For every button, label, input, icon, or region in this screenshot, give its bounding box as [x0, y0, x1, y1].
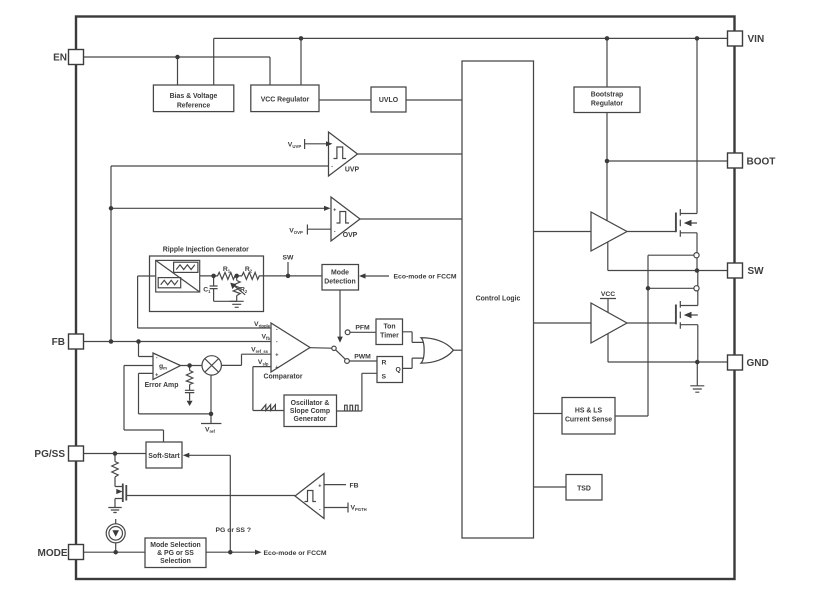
svg-text:+: +	[318, 484, 321, 490]
svg-text:-: -	[276, 339, 278, 345]
svg-text:PG/SS: PG/SS	[34, 449, 65, 460]
svg-text:BOOT: BOOT	[747, 157, 776, 168]
svg-text:+: +	[275, 353, 278, 359]
svg-text:SW: SW	[748, 266, 765, 277]
svg-text:Ton: Ton	[383, 324, 395, 331]
svg-text:Detection: Detection	[324, 279, 355, 286]
svg-text:Eco-mode or FCCM: Eco-mode or FCCM	[264, 550, 327, 557]
svg-text:Soft-Start: Soft-Start	[148, 453, 180, 460]
svg-text:Ripple Injection Generator: Ripple Injection Generator	[163, 247, 249, 254]
svg-text:OVP: OVP	[343, 232, 358, 239]
svg-text:Slope Comp: Slope Comp	[290, 408, 330, 415]
svg-text:Oscillator &: Oscillator &	[291, 400, 330, 407]
svg-text:-: -	[156, 355, 158, 361]
svg-text:Eco-mode or FCCM: Eco-mode or FCCM	[394, 274, 457, 281]
svg-text:+: +	[155, 373, 158, 379]
svg-text:Current Sense: Current Sense	[565, 417, 612, 424]
svg-text:+: +	[333, 208, 336, 214]
svg-text:Generator: Generator	[294, 416, 327, 423]
svg-text:SW: SW	[283, 255, 295, 262]
svg-text:EN: EN	[53, 53, 67, 64]
svg-text:Selection: Selection	[160, 558, 191, 565]
svg-text:GND: GND	[747, 358, 769, 369]
svg-text:FB: FB	[350, 483, 359, 490]
svg-text:-: -	[319, 507, 321, 513]
svg-text:Bootstrap: Bootstrap	[591, 92, 624, 99]
svg-text:UVP: UVP	[345, 167, 360, 174]
svg-text:Reference: Reference	[177, 103, 210, 110]
svg-text:-: -	[331, 164, 333, 170]
svg-text:PFM: PFM	[355, 325, 370, 332]
svg-text:PWM: PWM	[354, 354, 371, 361]
svg-text:Control Logic: Control Logic	[476, 296, 521, 303]
svg-text:Comparator: Comparator	[263, 374, 302, 381]
svg-text:-: -	[276, 327, 278, 333]
svg-text:Timer: Timer	[380, 333, 399, 340]
svg-text:Mode Selection: Mode Selection	[150, 542, 201, 549]
svg-text:Mode: Mode	[331, 270, 349, 277]
svg-text:Bias & Voltage: Bias & Voltage	[170, 93, 218, 100]
svg-text:MODE: MODE	[38, 548, 68, 559]
svg-text:Regulator: Regulator	[591, 101, 623, 108]
svg-text:VCC: VCC	[601, 291, 615, 298]
svg-text:UVLO: UVLO	[379, 97, 399, 104]
svg-text:R: R	[382, 360, 387, 367]
svg-text:Error Amp: Error Amp	[145, 382, 179, 389]
svg-text:VIN: VIN	[748, 34, 765, 45]
svg-text:TSD: TSD	[577, 486, 591, 493]
svg-text:& PG or SS: & PG or SS	[157, 550, 194, 557]
svg-text:VCC Regulator: VCC Regulator	[261, 97, 310, 104]
svg-text:S: S	[382, 374, 387, 381]
svg-text:FB: FB	[52, 337, 65, 348]
svg-text:PG or SS ?: PG or SS ?	[216, 527, 252, 534]
svg-text:+: +	[275, 365, 278, 371]
svg-text:-: -	[334, 229, 336, 235]
svg-text:HS & LS: HS & LS	[575, 408, 603, 415]
svg-text:Q: Q	[396, 367, 401, 374]
